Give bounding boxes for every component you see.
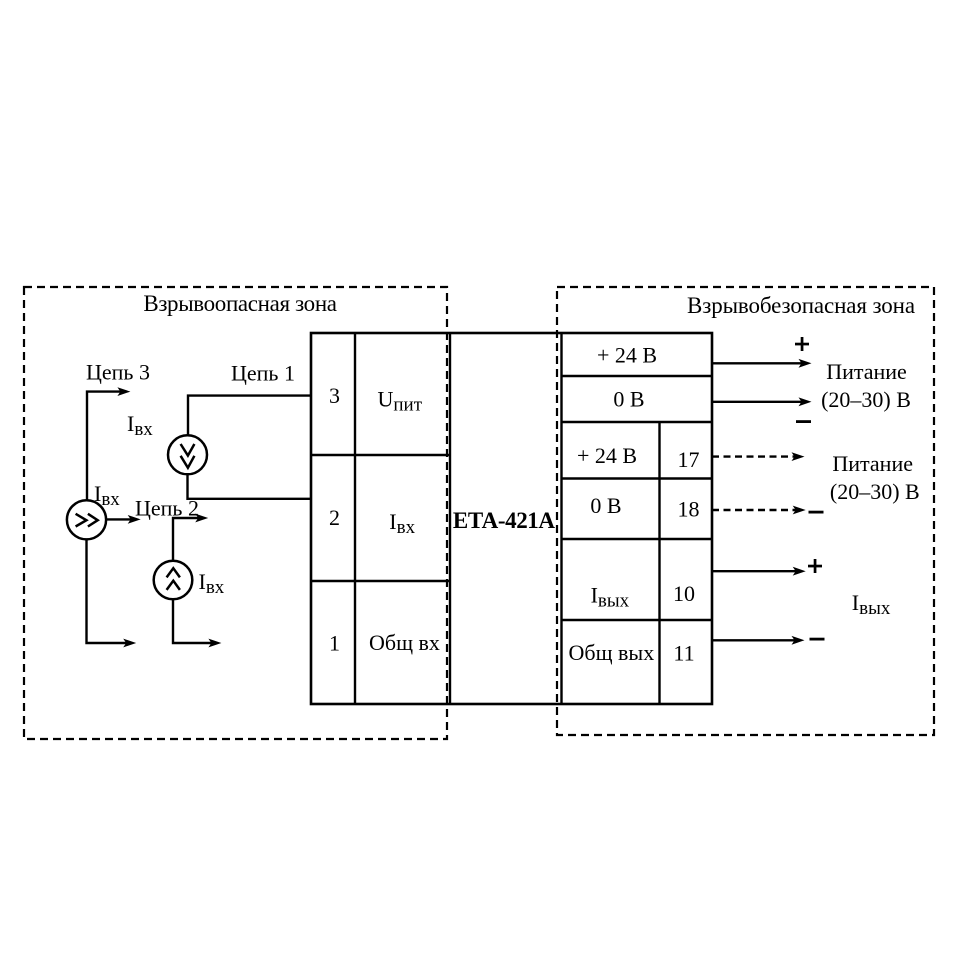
dashed arrow 17 xyxy=(712,455,796,457)
svg-text:Цепь 1: Цепь 1 xyxy=(231,361,295,386)
wire circuit1 bottom (source to pin 2) xyxy=(188,474,312,499)
right terminal strip verticals xyxy=(560,333,562,704)
svg-text:3: 3 xyxy=(329,383,340,408)
dashed arrow 18 xyxy=(712,509,797,511)
current source V3 (up arrows) xyxy=(154,561,193,600)
arrow Iвых + xyxy=(712,570,797,572)
svg-text:Взрывоопасная зона: Взрывоопасная зона xyxy=(143,291,336,316)
arrow out of source V2 xyxy=(106,518,132,520)
svg-text:17: 17 xyxy=(678,447,700,472)
minus sign power1 xyxy=(796,420,811,423)
minus sign power2 xyxy=(809,511,824,514)
arrow Iвых − xyxy=(712,639,796,641)
module ETA-421A outline xyxy=(311,333,712,704)
svg-text:Цепь 3: Цепь 3 xyxy=(86,360,150,385)
svg-text:0 В: 0 В xyxy=(590,493,621,518)
svg-text:Питание: Питание xyxy=(832,451,913,476)
svg-text:18: 18 xyxy=(678,497,700,522)
svg-text:(20–30) В: (20–30) В xyxy=(821,387,911,412)
arrow +24В out xyxy=(712,362,803,364)
right strip row dividers xyxy=(562,375,713,377)
wire circuit1 top (Цепь 1 to pin 3) xyxy=(188,396,311,436)
minus sign Iвых xyxy=(810,638,825,641)
svg-text:0 В: 0 В xyxy=(613,387,644,412)
plus sign power1 xyxy=(795,343,809,346)
svg-text:+ 24 В: + 24 В xyxy=(597,343,657,368)
svg-text:11: 11 xyxy=(673,641,694,666)
svg-text:2: 2 xyxy=(329,505,340,530)
return wire from V2 with arrow xyxy=(87,540,128,644)
svg-text:Общ вых: Общ вых xyxy=(569,640,655,665)
svg-text:(20–30) В: (20–30) В xyxy=(830,479,920,504)
svg-text:+ 24 В: + 24 В xyxy=(577,443,637,468)
left terminal strip verticals xyxy=(354,333,356,704)
svg-text:Цепь 2: Цепь 2 xyxy=(135,496,199,521)
current source V2 (right arrows) xyxy=(67,500,106,539)
svg-text:Питание: Питание xyxy=(826,359,907,384)
safe zone dashed box xyxy=(557,287,934,735)
arrow 0В out xyxy=(712,401,803,403)
circuit3 corner arrow top xyxy=(87,392,122,501)
plus sign Iвых xyxy=(808,565,822,568)
hazardous zone dashed box xyxy=(24,287,447,739)
circuit2 corner arrow xyxy=(173,518,200,561)
left strip row dividers xyxy=(311,454,450,456)
svg-text:ЕТА-421А: ЕТА-421А xyxy=(453,508,556,533)
current source V1 (down arrows) xyxy=(168,435,207,474)
svg-text:Общ вх: Общ вх xyxy=(369,630,440,655)
return wire from V3 with arrow xyxy=(173,599,213,643)
svg-text:1: 1 xyxy=(329,631,340,656)
svg-text:Взрывобезопасная зона: Взрывобезопасная зона xyxy=(687,293,915,318)
svg-text:10: 10 xyxy=(673,581,695,606)
